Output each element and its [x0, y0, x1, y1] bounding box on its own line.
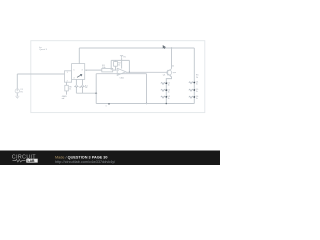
junction ground rail at 146.5: [146, 103, 147, 104]
svg-text:Made / QUESTION 3 PAGE 30: Made / QUESTION 3 PAGE 30: [55, 156, 107, 160]
label R2: [118, 63, 121, 67]
svg-text:nd: nd: [62, 98, 65, 100]
feedback top wire: [111, 59, 129, 61]
svg-text:5V: 5V: [20, 92, 23, 94]
svg-text:Quest 3: Quest 3: [39, 48, 47, 51]
right column row 2 symbol: [189, 89, 193, 91]
left column row 2 label: [168, 89, 171, 93]
svg-text:1k: 1k: [69, 89, 71, 91]
wire Q1 emitter down: [166, 77, 171, 104]
left column row 2 symbol: [161, 89, 165, 91]
net label 0: [108, 103, 110, 105]
wire to op-amp plus input: [96, 73, 117, 75]
relay bottom pin A: [75, 79, 77, 85]
wire Q1 collector to rail: [171, 48, 173, 69]
svg-text:OA1: OA1: [120, 76, 125, 79]
svg-text:1k: 1k: [118, 65, 120, 67]
wire contact B down: [82, 88, 84, 93]
right column row 3 junction: [193, 96, 195, 98]
right supply rail wire: [193, 48, 195, 104]
svg-text:2k: 2k: [172, 66, 174, 68]
relay pin labels: [67, 70, 84, 83]
left column row 1 symbol: [161, 82, 165, 84]
svg-text:1k: 1k: [168, 91, 170, 93]
relay switch box K1: [72, 64, 85, 80]
relay bottom pin B: [82, 79, 84, 85]
right column row 3 symbol: [189, 96, 193, 98]
left column row 1 label: [168, 82, 171, 86]
wire flag to op-amp top: [121, 58, 123, 68]
left column row 1 junction: [165, 82, 167, 84]
right column row 2 junction: [193, 89, 195, 91]
voltage source V1: [15, 89, 19, 93]
ground rail junction: [166, 103, 168, 105]
svg-text:1k: 1k: [168, 98, 170, 100]
svg-text:1: 1: [67, 72, 69, 74]
net flag text: [62, 96, 67, 100]
left column row 3 label: [168, 96, 171, 100]
wire R1 to op-amp minus input: [113, 69, 117, 71]
svg-text:Q1: Q1: [163, 74, 167, 76]
svg-text:1k: 1k: [196, 91, 198, 93]
footer title line: [55, 156, 107, 160]
relay switch lever arrow: [77, 74, 82, 77]
wire relay pin3 to R1: [85, 69, 102, 71]
label Q1: [163, 72, 176, 76]
bottom collector wire: [76, 92, 96, 94]
label V1 5V: [20, 89, 23, 93]
svg-text:1k: 1k: [196, 98, 198, 100]
bottom contact symbol A: [74, 86, 78, 88]
svg-text:2k: 2k: [196, 77, 198, 79]
right column row 1 symbol: [189, 82, 193, 84]
right rail top label: [196, 75, 199, 79]
footer bar: [0, 151, 220, 166]
right column row 1 junction: [193, 82, 195, 84]
junction dot: [95, 92, 97, 94]
junction on top rail: [171, 47, 172, 48]
transistor Q1: [167, 69, 172, 77]
wire V1 to ground: [16, 94, 18, 97]
right column row 1 label: [196, 82, 199, 86]
right column row 3 label: [196, 96, 199, 100]
schematic sheet border: [31, 41, 205, 113]
ground under V1: [15, 96, 19, 98]
svg-text:5: 5: [73, 70, 75, 72]
left column row 3 symbol: [161, 96, 165, 98]
left column row 2 junction: [165, 89, 167, 91]
bottom contact symbol B: [81, 86, 85, 88]
wire contact A down: [75, 88, 77, 93]
wire V1 up: [16, 74, 18, 89]
right column row 2 label: [196, 89, 199, 93]
mouse cursor: [163, 45, 166, 49]
op-amp OA1: [117, 68, 126, 75]
wire relay top pin to top rail: [78, 48, 80, 64]
feedback junction dot: [129, 72, 130, 73]
label R1: [102, 65, 106, 69]
svg-text:3: 3: [82, 70, 84, 72]
CircuitLab logo wire glyph: [13, 159, 26, 162]
op-amp output wire to Q1 base: [126, 71, 168, 73]
wire plus net under op-amp: [117, 73, 146, 75]
wire plus net down to ground rail: [146, 74, 148, 104]
svg-text:5V: 5V: [123, 56, 126, 58]
feedback right leg wire: [128, 60, 130, 72]
resistor R1: [102, 68, 113, 72]
relay coil box K1: [65, 71, 72, 82]
svg-text:1k: 1k: [168, 84, 170, 86]
supply flag for op-amp: [120, 55, 126, 58]
svg-text:LAB: LAB: [28, 159, 36, 163]
coil bottom resistor R6: [65, 82, 72, 94]
svg-text:1k: 1k: [196, 84, 198, 86]
annotation text block: [39, 46, 47, 51]
wire down to ground rail: [95, 74, 97, 104]
feedback resistor R2: [111, 60, 117, 70]
ground rail wire: [96, 103, 194, 105]
top supply rail wire: [79, 47, 194, 49]
svg-text:0: 0: [106, 106, 108, 108]
svg-text:npn: npn: [173, 72, 176, 74]
svg-text:http://circuitlab.com/c4w337dd: http://circuitlab.com/c4w337ddvk4y/: [55, 160, 115, 164]
CircuitLab logo LAB box: [26, 159, 37, 163]
left column row 3 junction: [165, 96, 167, 98]
svg-text:1a: 1a: [79, 87, 82, 89]
wire V1 to relay input: [17, 73, 64, 75]
